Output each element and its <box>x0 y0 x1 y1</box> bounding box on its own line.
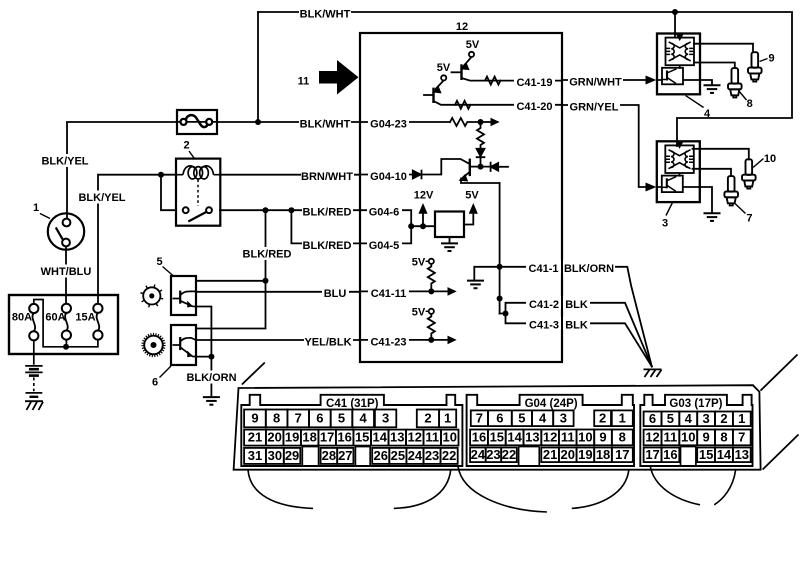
wire sensor6 ground leg <box>196 356 211 358</box>
label GRN/YEL <box>568 99 620 112</box>
pin 5 <box>662 412 680 427</box>
pin 18 <box>301 430 319 446</box>
panel corner leader top-left <box>242 363 265 385</box>
leader for label 9 <box>760 59 768 62</box>
pin 16 <box>336 430 354 446</box>
label BLU <box>322 285 349 298</box>
wire C41-3 internal <box>506 314 563 324</box>
spark plug 7 <box>724 176 738 205</box>
ignition switch 1 <box>48 213 84 249</box>
harness curve 2 <box>394 470 451 509</box>
pin 7 <box>287 410 309 428</box>
wire sensor6 supply link <box>196 281 266 329</box>
junction dot <box>208 354 214 360</box>
svg-text:15: 15 <box>355 430 369 445</box>
svg-text:BLK: BLK <box>565 299 588 311</box>
ground ECU internal <box>467 281 484 289</box>
wire fuse to ECU G04-23 BLK/WHT <box>217 121 360 123</box>
battery <box>33 341 35 365</box>
sensor box 5 <box>171 276 196 315</box>
pin label C41-2 <box>526 296 561 309</box>
label BLK/YEL upper <box>41 154 90 167</box>
sensor box 6 <box>171 325 196 365</box>
wire BLK/WHT trunk top <box>258 12 792 141</box>
transistor Q1 bar <box>460 66 462 79</box>
junction dot <box>263 278 269 284</box>
svg-text:1: 1 <box>33 202 39 214</box>
pin label C41-19 <box>514 74 555 87</box>
svg-text:G04 (24P): G04 (24P) <box>525 398 578 410</box>
svg-text:13: 13 <box>525 429 539 444</box>
svg-text:6: 6 <box>496 410 503 425</box>
svg-text:24: 24 <box>471 447 486 462</box>
wire regulator ground stem <box>449 237 451 243</box>
pin 5 <box>512 410 532 426</box>
svg-text:8: 8 <box>720 429 727 444</box>
svg-text:27: 27 <box>338 448 352 463</box>
pin 31 <box>244 448 266 464</box>
connector G04 (24P) <box>467 395 634 466</box>
5V supply circle Q1 <box>469 52 474 57</box>
transistor Q1 emitter from 5V <box>464 57 472 66</box>
pin label G04-10 <box>368 168 409 181</box>
svg-text:3: 3 <box>560 410 567 425</box>
svg-text:C41-2: C41-2 <box>529 299 559 311</box>
wire C41-11 internal <box>360 290 449 292</box>
pin 25 <box>389 448 406 464</box>
pin 11 <box>559 430 577 446</box>
svg-text:15A: 15A <box>75 312 95 324</box>
svg-text:1: 1 <box>619 410 626 425</box>
svg-text:14: 14 <box>373 430 388 445</box>
svg-text:C41 (31P): C41 (31P) <box>326 398 379 410</box>
label YEL/BLK <box>304 334 353 347</box>
svg-text:19: 19 <box>285 430 299 445</box>
svg-text:9: 9 <box>251 410 258 425</box>
label BLK/RED G04-5 <box>302 237 353 250</box>
wire BLK/WHT drop to fuse line <box>257 12 259 122</box>
pin label C41-20 <box>514 98 555 111</box>
leader for label 2 <box>189 151 195 159</box>
ground sensors BLK/ORN <box>203 397 220 405</box>
svg-text:BLK/RED: BLK/RED <box>303 207 352 219</box>
svg-text:10: 10 <box>578 429 592 444</box>
pin 2 <box>715 412 733 427</box>
pin 8 <box>266 410 288 428</box>
svg-text:22: 22 <box>502 447 516 462</box>
pin 21 <box>541 448 559 463</box>
pin 15 <box>488 430 506 446</box>
block arrow 11 <box>319 60 359 95</box>
5V supply circle C41-11 <box>429 259 434 264</box>
panel corner leader bottom-right <box>763 435 799 470</box>
pin 4 <box>352 410 374 428</box>
wire G04-10 internal <box>360 174 413 176</box>
pin 7 <box>471 410 488 426</box>
wire coil3 ground <box>699 187 712 213</box>
svg-text:13: 13 <box>390 430 404 445</box>
pin 13 <box>524 430 542 446</box>
svg-text:5: 5 <box>338 410 345 425</box>
svg-text:9: 9 <box>599 429 606 444</box>
arrow on C41-11 line <box>448 287 457 296</box>
pin 18 <box>594 448 612 463</box>
svg-text:BRN/WHT: BRN/WHT <box>301 171 353 183</box>
transistor Q3 bar <box>469 160 471 175</box>
leader for label 7 <box>735 204 746 214</box>
wire GRN/YEL to coil 3 <box>562 105 646 187</box>
chassis ground under battery <box>25 400 43 402</box>
svg-text:1: 1 <box>444 410 451 425</box>
svg-text:10: 10 <box>443 430 457 445</box>
wire BLU sensor5 to C41-11 <box>196 291 360 293</box>
fuse block internal wiring <box>34 300 98 347</box>
svg-text:BLK/ORN: BLK/ORN <box>186 372 236 384</box>
pin label C41-11 <box>368 285 409 298</box>
svg-text:2: 2 <box>720 411 727 426</box>
pin 10 <box>679 430 697 446</box>
svg-text:19: 19 <box>578 447 592 462</box>
junction dot <box>288 207 294 213</box>
pin 2 <box>594 410 611 426</box>
svg-text:6: 6 <box>152 377 158 389</box>
resistor on C41-19 line <box>485 77 500 85</box>
pin 12 <box>541 430 559 446</box>
pin 14 <box>371 430 389 446</box>
svg-text:4: 4 <box>704 108 711 120</box>
pin 1 <box>612 410 633 426</box>
pin 10 <box>577 430 595 446</box>
pin label C41-23 <box>368 333 409 346</box>
svg-text:C41-23: C41-23 <box>370 336 406 348</box>
pin 16 <box>470 430 488 446</box>
svg-text:14: 14 <box>507 429 522 444</box>
wire to arrow <box>481 121 492 123</box>
svg-text:31: 31 <box>248 448 262 463</box>
svg-text:16: 16 <box>663 447 677 462</box>
svg-text:23: 23 <box>425 448 439 463</box>
wire BLK/RED hook to G04-5 <box>291 210 360 243</box>
wire coil4 to plug 9 <box>694 44 753 53</box>
label BLK/YEL lower <box>78 191 127 204</box>
diode pointing left <box>491 163 499 171</box>
svg-text:29: 29 <box>285 448 299 463</box>
chassis ground 777 (ECU harness) <box>644 369 662 377</box>
wire BLK/RED vertical to sensors <box>265 210 267 281</box>
sensor 5 (pickup coil) <box>143 287 160 304</box>
ignition coil unit 3 <box>657 141 700 202</box>
label BLK/RED G04-6 <box>302 204 353 217</box>
wire BLK/RED relay to G04-6 <box>220 209 360 211</box>
svg-text:8: 8 <box>747 98 753 110</box>
relay 2 <box>176 159 220 226</box>
junction dot <box>478 164 484 170</box>
ground coil 3 <box>704 213 721 221</box>
pin 19 <box>283 430 301 446</box>
wire Q3 collector line <box>470 166 489 168</box>
svg-text:24: 24 <box>408 448 423 463</box>
svg-text:60A: 60A <box>45 312 65 324</box>
wire to regulator <box>411 225 435 227</box>
svg-text:28: 28 <box>322 448 336 463</box>
junction dot <box>428 337 434 343</box>
fuse 80A element <box>32 313 35 331</box>
pin 26 <box>372 448 389 464</box>
svg-text:BLK/WHT: BLK/WHT <box>300 8 351 20</box>
svg-text:7: 7 <box>738 429 745 444</box>
pin 6 <box>309 410 331 428</box>
arrow on G04-23 line <box>491 118 500 127</box>
pin 11 <box>662 430 680 446</box>
svg-text:3: 3 <box>702 411 709 426</box>
label WHT/BLU <box>41 265 92 278</box>
label BLK/WHT fuse line <box>299 115 351 128</box>
svg-text:15: 15 <box>699 447 713 462</box>
svg-text:11: 11 <box>298 76 310 88</box>
wire sensor5 supply <box>196 280 266 282</box>
fuse F top (component between BLK/WHT lines) <box>177 110 217 134</box>
svg-text:3: 3 <box>662 218 668 230</box>
arrow GRN/WHT into coil 4 <box>646 76 657 85</box>
junction dot <box>63 344 69 350</box>
label BLK C41-3 <box>563 317 590 330</box>
pin 19 <box>577 448 595 463</box>
pin 11 <box>424 430 442 446</box>
ignition coil unit 4 <box>657 34 700 95</box>
svg-text:5: 5 <box>156 256 162 268</box>
pin 9 <box>244 410 266 428</box>
svg-text:3: 3 <box>382 410 389 425</box>
pin 17 <box>318 430 336 446</box>
svg-text:5V: 5V <box>466 39 480 51</box>
svg-text:2: 2 <box>599 410 606 425</box>
pin 4 <box>532 410 553 426</box>
pin 6 <box>488 410 512 426</box>
svg-text:4: 4 <box>360 410 368 425</box>
svg-text:80A: 80A <box>12 312 32 324</box>
pin 21 <box>244 430 266 446</box>
pin 3 <box>375 410 396 428</box>
panel corner leader top-right <box>761 355 798 391</box>
wire C41-2 internal <box>500 303 562 314</box>
svg-text:16: 16 <box>472 429 486 444</box>
svg-text:5V: 5V <box>437 62 451 74</box>
junction dot <box>672 9 678 15</box>
svg-text:7: 7 <box>476 410 483 425</box>
svg-text:14: 14 <box>717 447 732 462</box>
svg-text:BLK: BLK <box>565 320 588 332</box>
svg-text:20: 20 <box>267 430 281 445</box>
svg-text:GRN/WHT: GRN/WHT <box>569 76 622 88</box>
pin 3 <box>697 412 715 427</box>
svg-text:12: 12 <box>543 429 557 444</box>
wire GRN/YEL inside coil3 <box>657 186 662 188</box>
svg-text:9: 9 <box>768 53 774 65</box>
leader for label 4 <box>686 96 704 108</box>
wire coil4 to plug 8 <box>694 63 735 69</box>
resistor pull-up C41-23 <box>428 314 435 340</box>
junction dot <box>158 172 164 178</box>
svg-text:G04-10: G04-10 <box>370 171 407 183</box>
wire coil4 supply drop <box>674 12 676 37</box>
pin 12 <box>644 430 662 446</box>
svg-text:5: 5 <box>667 411 674 426</box>
fuse block with 80A 60A 15A <box>9 295 118 354</box>
svg-text:1: 1 <box>738 411 745 426</box>
svg-text:10: 10 <box>681 429 695 444</box>
svg-text:15: 15 <box>490 429 504 444</box>
svg-text:5V: 5V <box>465 190 479 202</box>
ECU connector panel outline <box>234 355 799 470</box>
svg-text:12V: 12V <box>414 190 434 202</box>
label GRN/WHT <box>568 74 623 87</box>
pin 23 <box>486 448 502 463</box>
svg-text:BLK/WHT: BLK/WHT <box>300 118 351 130</box>
diode bar and wire to collector node <box>477 157 485 166</box>
wire BLK/YEL 15A to relay coil <box>98 175 176 304</box>
svg-text:6: 6 <box>316 410 323 425</box>
pin 13 <box>733 448 751 463</box>
svg-text:23: 23 <box>486 447 500 462</box>
harness curve 4 <box>572 470 629 508</box>
wire G04-10 to Q3 base <box>422 159 469 175</box>
svg-text:13: 13 <box>735 447 749 462</box>
transistor Q2 emitter from 5V <box>436 80 444 88</box>
svg-text:BLK/YEL: BLK/YEL <box>78 192 125 204</box>
svg-text:C41-11: C41-11 <box>371 288 406 300</box>
svg-text:C41-20: C41-20 <box>516 101 552 113</box>
ECU box 12 <box>360 33 562 362</box>
pin 12 <box>406 430 424 446</box>
svg-text:8: 8 <box>619 429 626 444</box>
pin 2 <box>417 410 439 428</box>
svg-text:26: 26 <box>374 448 388 463</box>
svg-text:10: 10 <box>764 153 776 165</box>
svg-text:12: 12 <box>408 430 422 445</box>
pin 3 <box>553 410 573 426</box>
svg-text:11: 11 <box>425 430 439 445</box>
leader for label 5 <box>163 267 174 277</box>
svg-text:18: 18 <box>302 430 316 445</box>
pin 7 <box>733 430 751 446</box>
pin label C41-1 <box>526 260 561 273</box>
harness curve 5 <box>650 466 700 505</box>
wire Q2 base stub <box>424 94 433 96</box>
wire 12V arrow stem <box>422 213 424 227</box>
wire GRN/WHT inside coil4 <box>657 79 662 81</box>
ground regulator <box>441 243 458 251</box>
connector C41 (31P) <box>241 395 462 466</box>
svg-text:5V: 5V <box>412 257 426 269</box>
pin 8 <box>715 430 733 446</box>
pin 22 <box>441 448 458 464</box>
wire fuse to ignition switch BLK/YEL <box>67 122 177 219</box>
sensor 6 (toothed wheel) <box>144 336 163 355</box>
wire Q1 base stub to 5V label <box>452 71 462 73</box>
label BLK/RED vertical <box>242 247 293 260</box>
svg-text:17: 17 <box>320 430 334 445</box>
svg-text:21: 21 <box>248 430 262 445</box>
junction dot <box>497 296 503 302</box>
pin 17 <box>612 448 633 463</box>
svg-text:4: 4 <box>539 410 547 425</box>
svg-text:BLK/ORN: BLK/ORN <box>564 263 614 275</box>
resistor pull-up C41-11 <box>428 264 435 292</box>
svg-text:12: 12 <box>645 429 659 444</box>
svg-text:C41-19: C41-19 <box>516 77 552 89</box>
pin 24 <box>406 448 423 464</box>
svg-text:17: 17 <box>615 447 629 462</box>
svg-text:BLK/YEL: BLK/YEL <box>41 156 88 168</box>
svg-text:7: 7 <box>746 213 752 225</box>
pin 1 <box>733 412 751 427</box>
wire G04-23 internal <box>360 121 450 123</box>
junction dot <box>408 223 414 229</box>
harness curve 6 <box>714 470 735 505</box>
pin 9 <box>594 430 612 446</box>
svg-text:12: 12 <box>456 21 468 33</box>
transistor Q2 bar <box>432 89 434 102</box>
5V supply circle C41-23 <box>429 309 434 314</box>
leader for label 8 <box>739 91 747 101</box>
svg-text:17: 17 <box>645 447 659 462</box>
spark plug 8 <box>728 68 742 97</box>
pin 8 <box>612 430 633 446</box>
pin label G04-6 <box>367 204 402 217</box>
svg-text:5: 5 <box>518 410 525 425</box>
label BLK/WHT top <box>299 5 351 18</box>
pin 20 <box>559 448 577 463</box>
junction dot <box>497 264 503 270</box>
wire Q3 emitter routing <box>461 179 500 184</box>
wire coil3 supply entry <box>676 141 678 146</box>
wire coil3 to plug 10 <box>693 149 749 160</box>
wire internal vertical bus <box>499 183 501 314</box>
svg-text:9: 9 <box>702 429 709 444</box>
resistor on C41-20 line <box>455 101 470 109</box>
wire BRN/WHT relay coil to ECU <box>220 174 360 176</box>
svg-text:C41-3: C41-3 <box>529 320 559 332</box>
fuse 15A element <box>97 313 100 331</box>
svg-text:5V: 5V <box>412 307 426 319</box>
junction dot <box>263 207 269 213</box>
pin 6 <box>644 412 662 427</box>
pin 5 <box>331 410 353 428</box>
wire C41-20 line from Q2 <box>434 101 563 105</box>
junction dot <box>420 223 426 229</box>
wire BLK/ORN to ground <box>210 357 212 397</box>
resistor on G04-23 line <box>450 118 481 126</box>
svg-text:20: 20 <box>561 447 575 462</box>
fuse 60A element <box>65 313 68 331</box>
pin 28 <box>321 448 338 464</box>
junction dot <box>478 119 484 125</box>
svg-text:25: 25 <box>391 448 405 463</box>
junction dot <box>428 288 434 294</box>
wire ground branch <box>474 267 499 280</box>
arrow GRN/YEL into coil 3 <box>646 183 657 192</box>
harness curve 1 <box>248 470 313 508</box>
pin 22 <box>501 448 517 463</box>
pin label C41-3 <box>526 317 561 330</box>
svg-text:4: 4 <box>685 411 693 426</box>
pin 1 <box>439 410 456 428</box>
diode pointing down <box>477 149 485 156</box>
svg-text:GRN/YEL: GRN/YEL <box>570 101 619 113</box>
label BLK C41-2 <box>563 296 590 309</box>
wire relay internal supply link <box>161 175 176 211</box>
svg-text:BLK/RED: BLK/RED <box>303 240 352 252</box>
